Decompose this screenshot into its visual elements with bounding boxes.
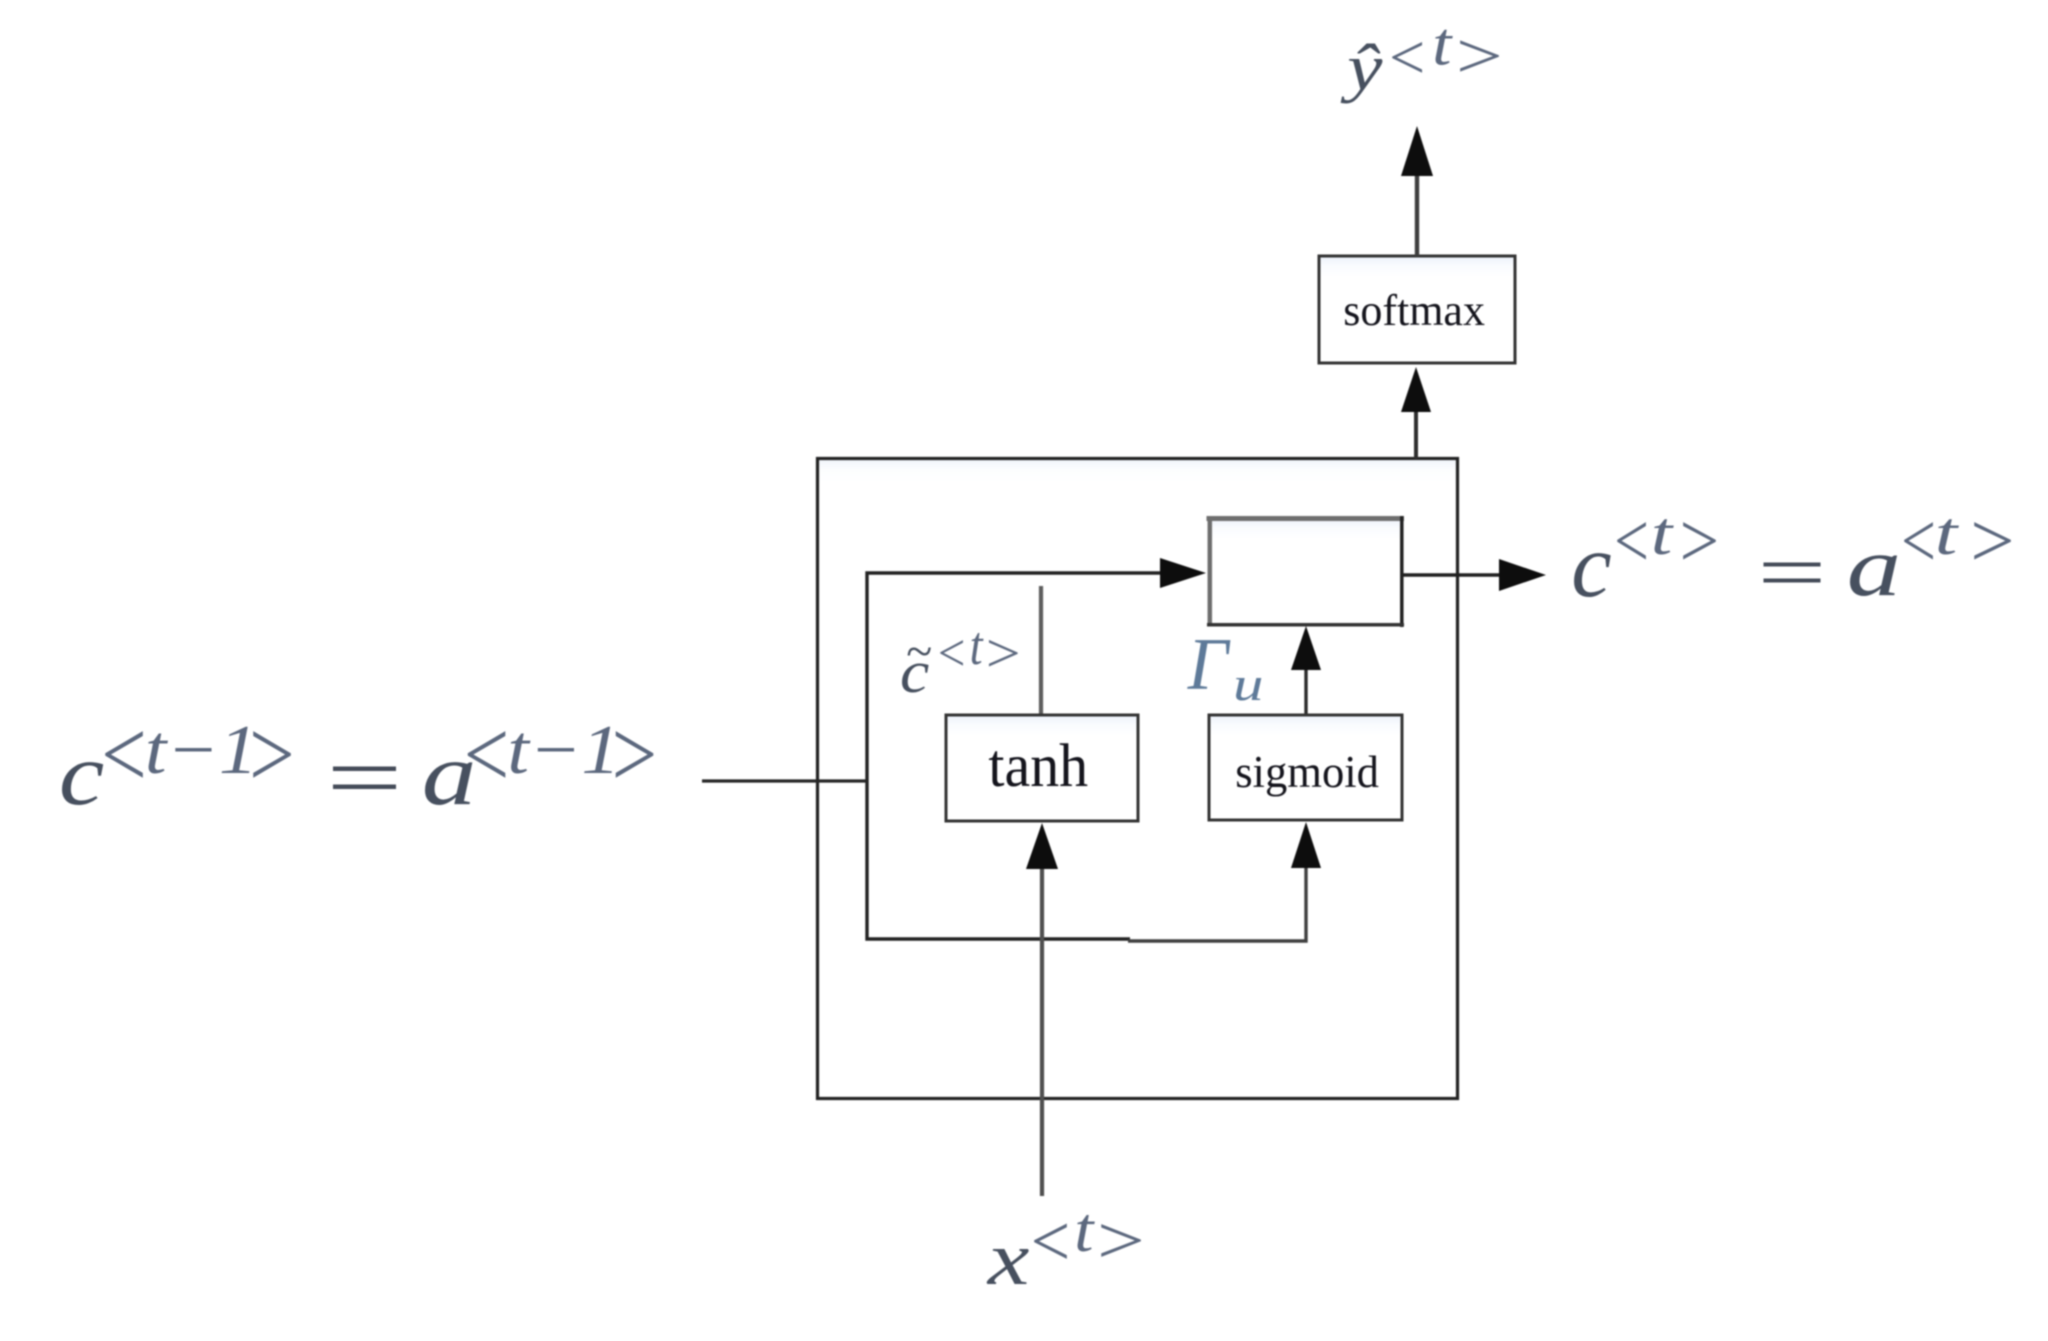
label ctilde mark (906, 625, 932, 678)
label right sup1 lt (1610, 499, 1652, 584)
wire: softmax to y-hat output (1415, 172, 1419, 256)
svg-text:a: a (1847, 520, 1901, 614)
svg-text:<: < (1026, 1201, 1073, 1282)
wire: memory box output right (1402, 573, 1505, 576)
label x sup t (1074, 1195, 1095, 1265)
label right sup2 lt (1897, 499, 1939, 584)
svg-text:x: x (986, 1217, 1030, 1301)
svg-text:>: > (1675, 498, 1722, 584)
svg-text:>: > (1965, 498, 2018, 583)
svg-text:u: u (1233, 657, 1263, 710)
label yhat sup gt (1451, 20, 1507, 92)
label ctilde c (900, 639, 929, 706)
svg-text:Γ: Γ (1187, 623, 1231, 706)
label ctilde sup t (970, 617, 985, 677)
label ctilde sup lt (935, 625, 968, 683)
svg-text:tanh: tanh (988, 732, 1088, 800)
svg-text:<: < (1385, 22, 1428, 93)
label softmax text (1343, 286, 1485, 335)
label left sup1 t-1 (145, 711, 258, 789)
inner loop wire: top + left + bottom (867, 573, 1163, 939)
svg-text:c: c (1571, 515, 1611, 616)
arrowhead into memory box left (1160, 558, 1206, 588)
label Gamma (1187, 623, 1231, 706)
label yhat sup t (1432, 11, 1453, 78)
label left sup1 lt (96, 702, 150, 808)
label left sup1 gt (244, 702, 298, 808)
arrowhead into sigmoid bottom (1291, 822, 1321, 868)
label right c (1571, 515, 1611, 616)
label left sup2 lt (459, 702, 513, 808)
svg-text:>: > (982, 623, 1024, 684)
svg-text:<: < (96, 702, 150, 808)
memory cell box (unlabeled) (1209, 518, 1402, 625)
wire: outer box top to softmax (1414, 407, 1418, 459)
label left a (422, 725, 477, 824)
label x lab (986, 1217, 1030, 1301)
label tanh text (988, 732, 1088, 800)
svg-text:<: < (935, 625, 968, 683)
label left sup2 gt (607, 702, 661, 808)
label right sup2 t (1935, 500, 1960, 568)
equals sign left (two bars) (333, 767, 396, 772)
label left sup2 t-1 (507, 711, 620, 789)
label right sup2 gt (1965, 498, 2018, 583)
label yhat (1340, 31, 1383, 104)
svg-text:t: t (1651, 500, 1674, 568)
svg-text:>: > (607, 702, 661, 808)
softmax box (1319, 256, 1515, 363)
label x sup gt (1092, 1202, 1149, 1278)
arrowhead into softmax bottom (1401, 367, 1431, 412)
svg-text:<: < (1897, 499, 1939, 584)
equals sign right (two bars) (1764, 563, 1821, 567)
svg-text:sigmoid: sigmoid (1235, 746, 1379, 797)
wire: x input vertical (1040, 862, 1044, 1196)
svg-text:t−1: t−1 (507, 711, 620, 789)
tanh box (946, 715, 1138, 821)
arrowhead into tanh bottom (1026, 823, 1058, 869)
outer GRU cell box (818, 459, 1458, 1099)
svg-text:>: > (1092, 1202, 1149, 1278)
svg-text:t: t (1935, 500, 1960, 568)
wire: c(t-1) input line (702, 779, 867, 782)
wire: x-branch jog to sigmoid bottom (1128, 862, 1306, 941)
sigmoid box (1209, 715, 1402, 820)
svg-text:softmax: softmax (1343, 286, 1485, 335)
svg-text:<: < (459, 702, 513, 808)
label right sup1 gt (1675, 498, 1722, 584)
label left c (59, 725, 104, 823)
label x sup lt (1026, 1201, 1073, 1282)
svg-text:<: < (1610, 499, 1652, 584)
arrowhead to y-hat (1401, 126, 1433, 176)
label yhat sup lt (1385, 22, 1428, 93)
svg-text:t−1: t−1 (145, 711, 258, 789)
label Gamma sub u (1233, 657, 1263, 710)
arrowhead output right (1499, 559, 1546, 591)
wire: sigmoid top to memory box (1304, 664, 1307, 715)
svg-text:>: > (244, 702, 298, 808)
arrowhead into memory box bottom (1291, 626, 1321, 670)
svg-text:ŷ: ŷ (1340, 31, 1383, 104)
label ctilde sup gt (982, 623, 1024, 684)
svg-text:~: ~ (906, 625, 932, 678)
label right a (1847, 520, 1901, 614)
wire: tanh top to c-tilde junction (1039, 586, 1043, 715)
label sigmoid text (1235, 746, 1379, 797)
label right sup1 t (1651, 500, 1674, 568)
svg-text:>: > (1451, 20, 1507, 92)
